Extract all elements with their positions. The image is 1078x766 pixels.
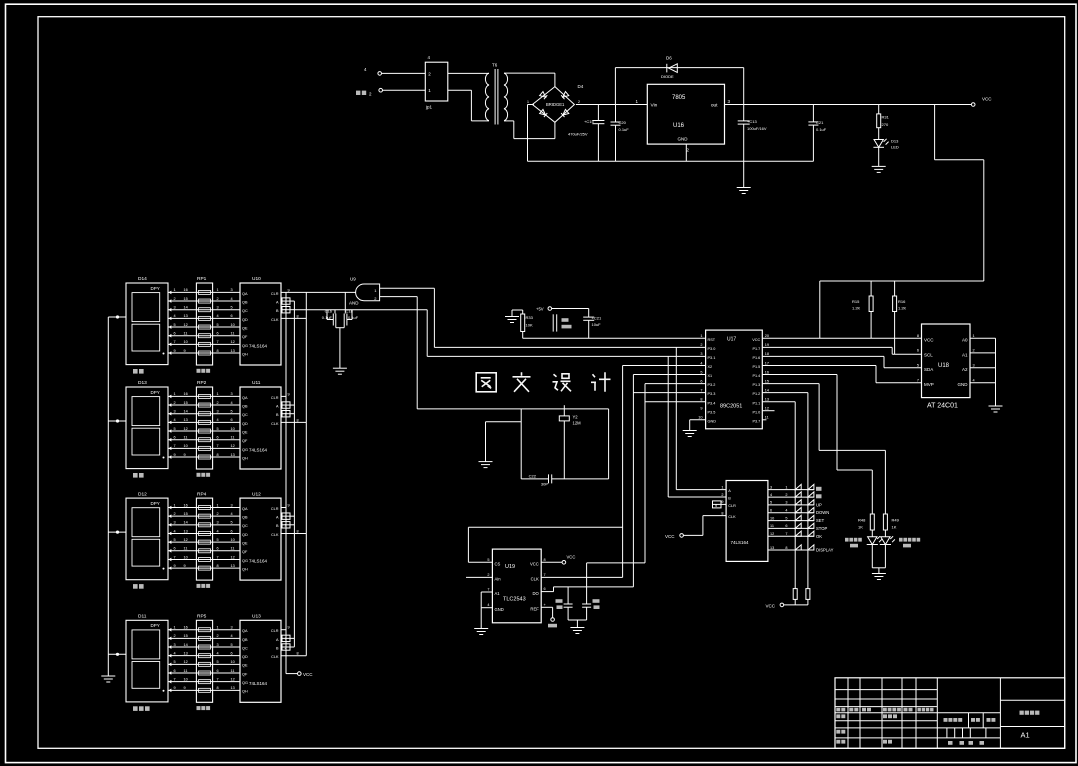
svg-text:1: 1 <box>973 334 975 338</box>
wire U10 QC row to MCU TXD <box>294 310 705 357</box>
svg-text:BRIDGE1: BRIDGE1 <box>546 102 565 107</box>
VCC terminal keys <box>766 603 808 608</box>
connector JP1 <box>425 55 448 110</box>
svg-text:4: 4 <box>785 509 787 513</box>
wire XTAL left leg <box>520 409 522 479</box>
svg-text:+C21: +C21 <box>592 316 602 321</box>
wire MCU P1.5 to MVP <box>762 366 921 383</box>
crystal Y2 <box>559 405 581 479</box>
switch S22 reset button <box>552 309 589 332</box>
svg-text:R16: R16 <box>898 299 906 304</box>
svg-text:2: 2 <box>700 343 702 347</box>
svg-text:U17: U17 <box>727 337 736 343</box>
svg-text:T6: T6 <box>492 63 498 68</box>
wire reset rail to MCU RST <box>523 337 706 339</box>
svg-text:7: 7 <box>785 532 787 536</box>
svg-text:12: 12 <box>770 532 774 536</box>
svg-text:P3.0: P3.0 <box>708 347 716 351</box>
svg-text:VCC: VCC <box>924 338 934 343</box>
wire transformer secondary top to bridge AC1 <box>504 73 555 87</box>
svg-text:1K: 1K <box>892 525 897 530</box>
svg-text:P3.7: P3.7 <box>752 419 760 423</box>
svg-text:VCC: VCC <box>766 603 776 608</box>
svg-text:U13: U13 <box>252 614 261 620</box>
svg-text:3: 3 <box>785 501 787 505</box>
resistor R49 <box>883 450 899 536</box>
wire MCU P1.3 to R49 LED2 <box>762 384 885 451</box>
input terminal pin 4 <box>364 67 382 75</box>
MCU U17 89C2051 <box>698 330 769 429</box>
svg-text:D12: D12 <box>138 491 147 497</box>
wire AND output to shift register chain <box>286 291 356 293</box>
ground power rail <box>737 161 751 193</box>
wire ADC CLK branch <box>541 576 622 578</box>
svg-text:11: 11 <box>770 524 774 528</box>
svg-text:R33: R33 <box>526 315 534 320</box>
svg-text:9: 9 <box>721 500 723 504</box>
svg-text:1.2K: 1.2K <box>852 306 861 311</box>
svg-text:6: 6 <box>544 587 546 591</box>
wire JP1 pin1 to transformer primary bottom <box>448 90 489 121</box>
svg-text:P1.0: P1.0 <box>752 410 760 414</box>
transformer T6 <box>485 63 507 125</box>
capacitor C22 30P <box>521 474 608 487</box>
svg-text:GND: GND <box>958 382 969 387</box>
svg-text:AND: AND <box>349 300 359 305</box>
svg-text:13: 13 <box>770 546 774 550</box>
svg-text:D14: D14 <box>138 276 147 282</box>
label digit position 1 <box>133 369 144 374</box>
resistor R33 <box>521 310 534 338</box>
svg-text:A0: A0 <box>962 338 968 343</box>
shift register U13 74LS164 <box>252 614 261 620</box>
svg-text:C22: C22 <box>529 474 537 479</box>
svg-text:D13: D13 <box>138 380 147 386</box>
wire AND input1 to MCU RXD <box>380 288 706 347</box>
svg-text:0.1uF: 0.1uF <box>816 127 827 132</box>
svg-text:30P: 30P <box>541 482 548 487</box>
svg-text:6: 6 <box>785 524 787 528</box>
svg-text:8: 8 <box>721 511 723 515</box>
svg-text:7805: 7805 <box>672 95 686 101</box>
resistor R48 <box>858 470 874 537</box>
svg-text:A1: A1 <box>1021 731 1030 740</box>
svg-text:270: 270 <box>882 122 889 127</box>
input terminal 输入 2 <box>356 88 383 96</box>
svg-text:1.2K: 1.2K <box>898 306 907 311</box>
resistor network RP5 <box>197 614 207 620</box>
ground LEDs <box>872 545 886 580</box>
wire display common bus <box>107 317 109 676</box>
label digit position 4 <box>133 706 150 711</box>
svg-text:P3.2: P3.2 <box>708 383 716 387</box>
svg-text:VCC: VCC <box>530 562 539 567</box>
svg-text:P1.1: P1.1 <box>752 401 760 405</box>
shift register U11 74LS164 <box>252 380 261 386</box>
wire MCU P1.2 to key column B <box>762 393 808 589</box>
key row wires and switches <box>768 484 834 552</box>
svg-text:DIODE: DIODE <box>661 74 674 79</box>
capacitor C25 <box>582 599 599 620</box>
svg-text:7: 7 <box>487 588 489 592</box>
svg-text:P1.3: P1.3 <box>752 383 760 387</box>
svg-text:U10: U10 <box>252 276 261 282</box>
ground reset resistor <box>505 310 523 323</box>
svg-text:2: 2 <box>487 573 489 577</box>
resistor RA key pullup A <box>793 589 797 605</box>
svg-text:VCC: VCC <box>303 672 313 677</box>
ground EEPROM address pins <box>989 406 1003 412</box>
capacitor C16 <box>322 309 335 326</box>
ground crystal circuit <box>479 422 522 468</box>
svg-text:VCC: VCC <box>665 534 675 539</box>
svg-text:DOWN: DOWN <box>816 510 829 515</box>
wire U14 A from MCU RXD <box>676 347 726 489</box>
title block texts <box>836 708 1039 745</box>
svg-text:STOP: STOP <box>816 526 828 531</box>
+5V terminal reset <box>536 306 552 311</box>
ground 7805 GND pin <box>685 144 687 161</box>
svg-text:4: 4 <box>973 379 975 383</box>
svg-text:D11: D11 <box>138 614 147 620</box>
svg-text:0.1uF: 0.1uF <box>348 315 359 320</box>
watermark text 图文设计 <box>476 372 610 392</box>
svg-text:OK: OK <box>816 534 822 539</box>
svg-text:16: 16 <box>765 370 769 374</box>
wire MCU P1.1 to key column A <box>762 402 795 589</box>
svg-text:C18: C18 <box>346 309 354 314</box>
resistor network RP2 <box>197 380 207 386</box>
svg-text:DO: DO <box>533 591 540 596</box>
ground MCU pin10 <box>683 420 706 437</box>
resistor network RP1 <box>197 276 207 282</box>
svg-text:P1.2: P1.2 <box>752 392 760 396</box>
svg-text:7: 7 <box>917 379 919 383</box>
svg-text:20: 20 <box>765 334 769 338</box>
svg-text:6: 6 <box>770 509 772 513</box>
svg-text:3: 3 <box>973 364 975 368</box>
VCC terminal top right <box>971 97 992 107</box>
svg-text:P3.4: P3.4 <box>708 401 716 405</box>
svg-text:4: 4 <box>770 493 772 497</box>
svg-text:SCL: SCL <box>924 352 933 357</box>
AND gate U9 <box>349 277 380 306</box>
svg-text:LED: LED <box>891 145 899 150</box>
capacitor C18 <box>345 309 358 326</box>
svg-text:RP2: RP2 <box>197 380 207 386</box>
svg-text:U18: U18 <box>938 363 950 369</box>
svg-text:+C15: +C15 <box>584 119 594 124</box>
svg-text:74LS164: 74LS164 <box>731 540 750 545</box>
svg-text:GND: GND <box>678 137 689 142</box>
svg-text:AT 24C01: AT 24C01 <box>927 403 958 410</box>
svg-text:VCC: VCC <box>752 338 760 342</box>
svg-text:D6: D6 <box>666 56 672 61</box>
svg-text:0.1uF: 0.1uF <box>619 127 630 132</box>
svg-text:GND: GND <box>708 419 717 423</box>
shift register U14 74LS164 <box>721 481 774 562</box>
svg-text:REF: REF <box>530 607 539 612</box>
ground display bus <box>101 676 115 682</box>
svg-text:10: 10 <box>698 416 702 420</box>
wire VCC rail down to right side <box>935 105 984 282</box>
svg-text:A1: A1 <box>962 352 968 357</box>
svg-text:Ain: Ain <box>495 577 502 582</box>
svg-text:C20: C20 <box>619 120 627 125</box>
svg-text:P1.4: P1.4 <box>752 374 760 378</box>
svg-text:A1: A1 <box>495 591 501 596</box>
svg-text:C21: C21 <box>816 120 824 125</box>
shift register U12 74LS164 <box>252 491 261 497</box>
wire AND output branch to caps <box>344 292 346 309</box>
7-seg display D13 block <box>108 387 306 477</box>
svg-text:U16: U16 <box>673 123 685 129</box>
wire shift chain clock bus <box>305 292 307 655</box>
svg-text:U12: U12 <box>252 491 261 497</box>
7-seg display D11 block <box>108 620 306 710</box>
label digit position 3 <box>133 584 144 589</box>
wire C16 C18 common to ground <box>333 314 347 375</box>
svg-text:P1.5: P1.5 <box>752 365 760 369</box>
svg-text:VCC: VCC <box>567 555 576 560</box>
shift register U10 74LS164 <box>252 276 261 282</box>
wire DC+ rail bridge to 7805 Vin <box>576 104 647 106</box>
wire input N to JP1 <box>383 89 426 91</box>
svg-text:P3.1: P3.1 <box>708 356 716 360</box>
svg-text:5: 5 <box>785 516 787 520</box>
svg-text:9: 9 <box>700 407 702 411</box>
svg-text:SDA: SDA <box>924 367 933 372</box>
svg-text:7: 7 <box>700 388 702 392</box>
svg-text:10uF: 10uF <box>592 322 602 327</box>
wire ADC CS branch <box>468 527 622 562</box>
capacitor C24 <box>556 587 573 620</box>
svg-text:8: 8 <box>917 334 919 338</box>
svg-text:3: 3 <box>700 352 702 356</box>
7-seg display D12 block <box>108 498 306 588</box>
svg-text:U19: U19 <box>505 564 515 570</box>
svg-text:1: 1 <box>785 485 787 489</box>
resistor RB key pullup B <box>806 589 810 605</box>
svg-text:10: 10 <box>770 516 774 520</box>
svg-text:RST: RST <box>708 338 716 342</box>
svg-text:5: 5 <box>770 501 772 505</box>
diode D6 bypass <box>615 56 743 105</box>
wire U14 B from MCU TXD <box>668 356 726 497</box>
svg-text:1: 1 <box>700 334 702 338</box>
svg-text:GND: GND <box>495 607 504 612</box>
resistor R15 pullup <box>852 281 873 338</box>
voltage regulator U16 7805 <box>636 84 731 152</box>
wire 7805 out rail to VCC terminal <box>725 104 972 106</box>
wire U14 CLR stub <box>713 501 727 508</box>
svg-text:89C2051: 89C2051 <box>720 404 742 410</box>
svg-text:DISPLAY: DISPLAY <box>816 548 834 553</box>
svg-text:17: 17 <box>765 361 769 365</box>
wire MCU P3.3 stub <box>633 392 705 394</box>
svg-text:C16: C16 <box>325 309 333 314</box>
resistor R31 <box>877 105 890 140</box>
capacitor C21 reset <box>583 309 602 339</box>
wire JP1 pin2 to transformer primary top <box>448 72 489 74</box>
capacitor C21 <box>808 105 826 162</box>
LED D14 alarm indicator <box>845 536 882 547</box>
svg-text:P3.3: P3.3 <box>708 392 716 396</box>
svg-text:RP5: RP5 <box>197 614 207 620</box>
wire power ground rail <box>528 160 814 162</box>
svg-text:TLC2543: TLC2543 <box>503 597 526 603</box>
svg-text:P1.7: P1.7 <box>752 347 760 351</box>
svg-text:A2: A2 <box>962 367 968 372</box>
svg-text:2: 2 <box>973 349 975 353</box>
svg-text:D13: D13 <box>891 139 899 144</box>
wire XTAL top line <box>417 408 608 410</box>
wire XTAL right leg <box>608 409 610 479</box>
svg-text:470uF/25V: 470uF/25V <box>568 132 588 137</box>
svg-text:18: 18 <box>765 352 769 356</box>
wire MCU P3.2 line to caps <box>587 384 706 604</box>
svg-text:RP1: RP1 <box>197 276 207 282</box>
wire MCU X1 line to ADC DO <box>541 375 705 592</box>
wire bridge minus to ground rail <box>528 105 534 162</box>
svg-text:3: 3 <box>770 485 772 489</box>
svg-text:2: 2 <box>721 493 723 497</box>
svg-text:CS: CS <box>495 562 501 567</box>
svg-text:10K: 10K <box>526 323 533 328</box>
svg-text:19: 19 <box>765 343 769 347</box>
svg-text:8: 8 <box>700 397 702 401</box>
svg-text:RP4: RP4 <box>197 491 207 497</box>
wire ADC Ain stub <box>466 576 492 578</box>
svg-text:0.1uF: 0.1uF <box>322 315 333 320</box>
LED D13 power indicator <box>873 139 899 150</box>
svg-text:12: 12 <box>765 407 769 411</box>
VCC terminal U14 CLK <box>665 516 726 539</box>
bridge rectifier D4 <box>527 84 584 122</box>
svg-text:6: 6 <box>700 379 702 383</box>
svg-text:out: out <box>711 103 718 109</box>
ground ADC caps <box>568 620 587 634</box>
svg-text:14: 14 <box>765 388 769 392</box>
title block table <box>835 678 1065 749</box>
wire shift chain CLR bus <box>285 292 287 673</box>
svg-text:12M: 12M <box>573 421 582 426</box>
svg-text:15: 15 <box>765 379 769 383</box>
EEPROM U18 AT24C01 <box>917 324 975 410</box>
wire transformer secondary bottom to bridge AC2 <box>504 121 555 139</box>
svg-text:11: 11 <box>765 416 769 420</box>
svg-text:X2: X2 <box>708 365 713 369</box>
svg-text:+C13: +C13 <box>747 119 757 124</box>
wire VCC horizontal feed <box>820 280 984 282</box>
svg-text:SET: SET <box>816 518 825 523</box>
wire shift chain data bus <box>293 301 295 647</box>
svg-text:CLK: CLK <box>531 577 539 582</box>
svg-text:4: 4 <box>700 361 702 365</box>
VCC terminal ADC EOC <box>541 555 575 565</box>
wire MCU P1.7 to SCL <box>762 347 921 354</box>
capacitor C13 <box>738 105 767 162</box>
svg-text:1: 1 <box>721 485 723 489</box>
svg-text:MVP: MVP <box>924 382 934 387</box>
svg-text:Vin: Vin <box>651 103 658 109</box>
svg-text:CLR: CLR <box>728 504 736 508</box>
svg-text:P3.5: P3.5 <box>708 410 716 414</box>
svg-text:5: 5 <box>917 364 919 368</box>
ADC U19 TLC2543 <box>487 549 546 623</box>
svg-text:R15: R15 <box>852 299 860 304</box>
VCC terminal ADC REF <box>541 607 557 627</box>
svg-text:U11: U11 <box>252 380 261 386</box>
resistor R16 pullup <box>893 281 907 354</box>
svg-text:CLK: CLK <box>728 515 736 519</box>
svg-text:UP: UP <box>816 502 822 507</box>
svg-text:X1: X1 <box>708 374 713 378</box>
svg-text:U9: U9 <box>350 277 356 282</box>
svg-text:8: 8 <box>544 558 546 562</box>
svg-text:R31: R31 <box>882 115 890 120</box>
svg-text:4: 4 <box>487 603 489 607</box>
svg-text:P1.6: P1.6 <box>752 356 760 360</box>
wire MCU P3.4 stub <box>645 401 706 403</box>
7-seg display D14 block <box>108 283 306 373</box>
svg-text:100uF/16V: 100uF/16V <box>747 126 767 131</box>
label digit position 2 <box>133 473 144 478</box>
svg-text:+5V: +5V <box>536 306 544 311</box>
svg-text:2: 2 <box>785 493 787 497</box>
wire MCU P1.4 to R48 LED1 <box>762 375 872 471</box>
wire EEPROM A0 A1 A2 GND to ground <box>970 338 996 406</box>
svg-text:13: 13 <box>765 397 769 401</box>
svg-text:8: 8 <box>785 546 787 550</box>
svg-text:1: 1 <box>527 100 529 104</box>
svg-text:5: 5 <box>700 370 702 374</box>
wire AND input2 to crystal line <box>380 297 418 409</box>
svg-text:6: 6 <box>917 349 919 353</box>
resistor network RP4 <box>197 491 207 497</box>
svg-text:D4: D4 <box>578 84 584 89</box>
wire MCU X2 line to ADC CS <box>623 366 706 578</box>
wire MCU P1.0 stub <box>762 410 774 412</box>
svg-text:7: 7 <box>544 573 546 577</box>
svg-text:jp1: jp1 <box>425 105 433 110</box>
svg-text:1K: 1K <box>858 525 863 530</box>
capacitor C15 <box>568 105 604 162</box>
wire VCC down to MCU pin20 <box>819 281 821 338</box>
svg-text:R48: R48 <box>858 518 866 523</box>
svg-text:R49: R49 <box>892 518 900 523</box>
svg-text:A: A <box>728 489 731 493</box>
svg-text:B: B <box>728 497 731 501</box>
wire MCU P1.6 to SDA <box>762 356 921 367</box>
LED D15 chime indicator <box>880 536 920 547</box>
VCC terminal chain <box>286 672 313 677</box>
svg-text:VCC: VCC <box>982 97 992 102</box>
wire input L to JP1 <box>382 72 426 74</box>
wire MCU P3.7 stub <box>762 419 766 421</box>
svg-text:5: 5 <box>487 558 489 562</box>
ground LED D13 <box>872 147 886 172</box>
wire MCU VCC line to EEPROM <box>762 337 921 339</box>
wire ADC A1 GND to ground <box>474 592 492 635</box>
svg-text:9: 9 <box>715 504 717 508</box>
svg-text:2: 2 <box>578 100 580 104</box>
capacitor C20 <box>611 105 630 162</box>
svg-text:Y2: Y2 <box>573 415 579 420</box>
